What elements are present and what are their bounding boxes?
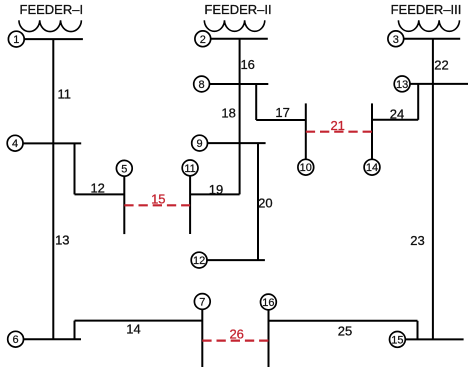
svg-text:20: 20 xyxy=(258,196,272,211)
svg-text:13: 13 xyxy=(55,232,69,247)
svg-text:4: 4 xyxy=(12,138,18,150)
svg-text:1: 1 xyxy=(13,34,19,46)
svg-text:11: 11 xyxy=(58,87,72,102)
svg-text:14: 14 xyxy=(126,322,140,337)
svg-text:24: 24 xyxy=(390,107,404,122)
svg-text:2: 2 xyxy=(200,34,206,46)
svg-text:9: 9 xyxy=(197,138,203,150)
svg-text:15: 15 xyxy=(391,334,403,346)
svg-text:25: 25 xyxy=(338,324,352,339)
svg-text:8: 8 xyxy=(199,79,205,91)
svg-text:23: 23 xyxy=(410,233,424,248)
svg-text:22: 22 xyxy=(434,58,448,73)
svg-text:5: 5 xyxy=(121,163,127,175)
svg-text:15: 15 xyxy=(151,192,165,207)
svg-text:6: 6 xyxy=(13,334,19,346)
svg-text:26: 26 xyxy=(229,327,243,342)
svg-text:17: 17 xyxy=(275,105,289,120)
svg-text:FEEDER–II: FEEDER–II xyxy=(204,2,271,17)
svg-text:12: 12 xyxy=(193,255,205,267)
svg-text:3: 3 xyxy=(393,34,399,46)
svg-text:16: 16 xyxy=(262,297,274,309)
svg-text:10: 10 xyxy=(300,162,312,174)
svg-text:FEEDER–III: FEEDER–III xyxy=(391,2,462,17)
svg-text:18: 18 xyxy=(221,106,235,121)
svg-text:13: 13 xyxy=(396,79,408,91)
svg-text:21: 21 xyxy=(330,118,344,133)
svg-text:12: 12 xyxy=(90,181,104,196)
svg-text:FEEDER–I: FEEDER–I xyxy=(20,2,84,17)
svg-text:7: 7 xyxy=(199,297,205,309)
svg-text:16: 16 xyxy=(240,57,254,72)
svg-text:19: 19 xyxy=(209,182,223,197)
svg-text:14: 14 xyxy=(366,162,378,174)
svg-text:11: 11 xyxy=(184,163,195,175)
